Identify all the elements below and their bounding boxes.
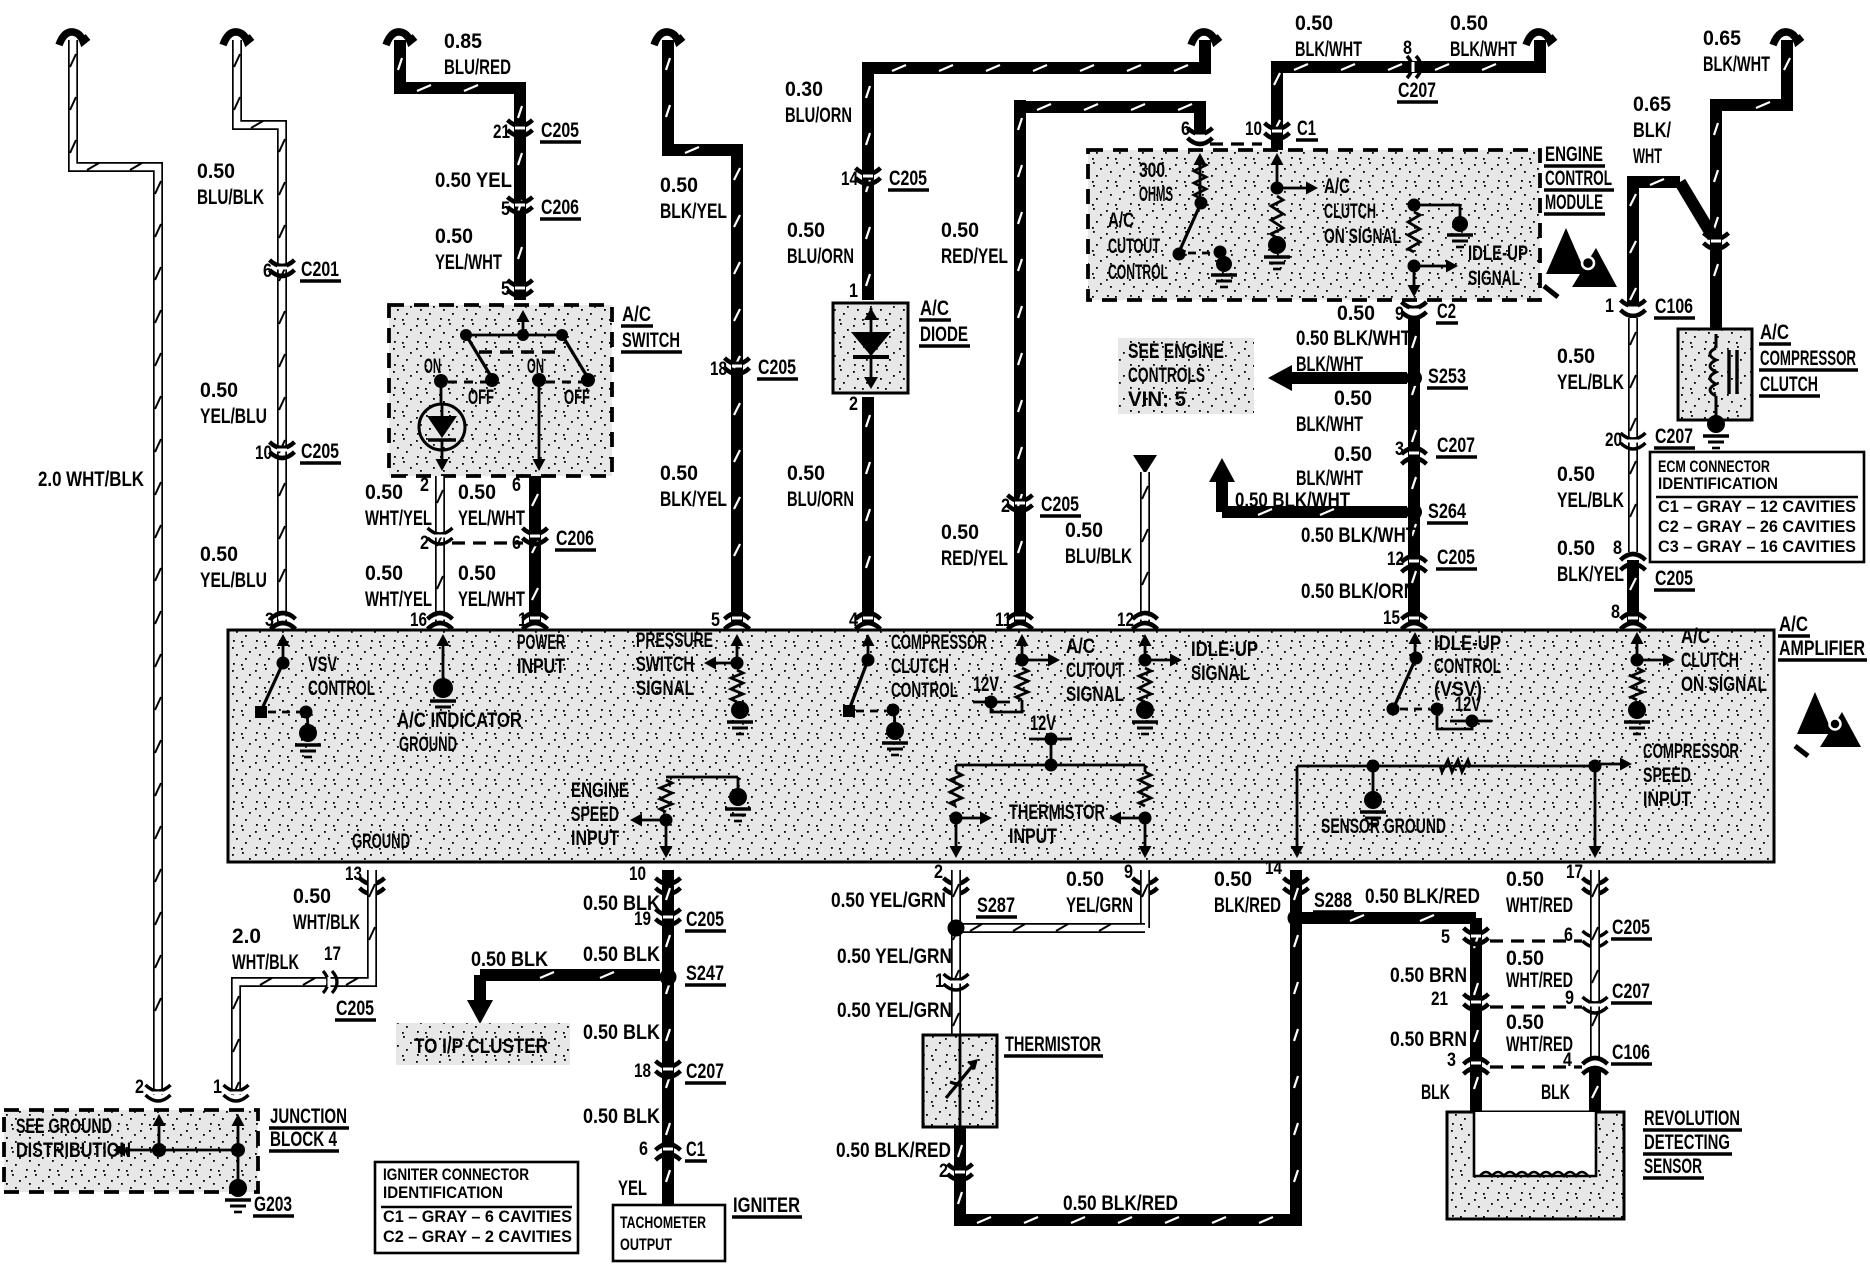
svg-text:0.65: 0.65 bbox=[1703, 27, 1741, 50]
svg-text:BLK/WHT: BLK/WHT bbox=[1296, 413, 1363, 436]
svg-text:GROUND: GROUND bbox=[352, 830, 410, 853]
svg-text:BLK/WHT: BLK/WHT bbox=[1450, 38, 1517, 61]
svg-text:BLK/WHT: BLK/WHT bbox=[1296, 467, 1363, 490]
svg-text:SWITCH: SWITCH bbox=[622, 329, 680, 352]
svg-text:0.50: 0.50 bbox=[293, 885, 331, 908]
svg-text:YEL/WHT: YEL/WHT bbox=[458, 588, 525, 611]
svg-text:0.50: 0.50 bbox=[365, 562, 403, 585]
svg-text:INPUT: INPUT bbox=[517, 655, 565, 678]
svg-text:0.50: 0.50 bbox=[941, 219, 979, 242]
svg-text:A/C: A/C bbox=[920, 297, 949, 320]
svg-text:REVOLUTION: REVOLUTION bbox=[1644, 1107, 1740, 1130]
svg-text:0.50 BLK/RED: 0.50 BLK/RED bbox=[1063, 1192, 1178, 1215]
svg-text:OFF: OFF bbox=[564, 386, 590, 409]
svg-text:0.50 BLK: 0.50 BLK bbox=[583, 1105, 660, 1128]
svg-text:OHMS: OHMS bbox=[1139, 183, 1173, 206]
svg-text:0.50 YEL/GRN: 0.50 YEL/GRN bbox=[837, 945, 952, 968]
svg-text:BLU/BLK: BLU/BLK bbox=[1065, 545, 1132, 568]
svg-text:YEL/BLU: YEL/BLU bbox=[200, 569, 267, 592]
svg-text:12V: 12V bbox=[1030, 712, 1056, 735]
svg-text:A/C: A/C bbox=[1779, 613, 1808, 636]
svg-text:MODULE: MODULE bbox=[1545, 191, 1603, 214]
svg-text:BLK: BLK bbox=[1421, 1081, 1450, 1104]
svg-text:2: 2 bbox=[135, 1077, 144, 1098]
svg-text:8: 8 bbox=[1613, 538, 1622, 559]
svg-text:BLK: BLK bbox=[1541, 1081, 1570, 1104]
svg-text:YEL/BLK: YEL/BLK bbox=[1557, 371, 1624, 394]
svg-text:6: 6 bbox=[639, 1139, 648, 1160]
svg-text:1: 1 bbox=[849, 281, 858, 302]
svg-text:YEL/GRN: YEL/GRN bbox=[1066, 894, 1133, 917]
svg-text:0.85: 0.85 bbox=[444, 30, 482, 53]
svg-text:AMPLIFIER: AMPLIFIER bbox=[1779, 637, 1865, 660]
svg-text:S253: S253 bbox=[1428, 365, 1466, 388]
svg-text:C201: C201 bbox=[301, 258, 339, 281]
svg-text:BLK/RED: BLK/RED bbox=[1214, 894, 1281, 917]
svg-text:DIODE: DIODE bbox=[920, 323, 968, 346]
svg-text:SIGNAL: SIGNAL bbox=[1066, 683, 1124, 706]
svg-text:IDENTIFICATION: IDENTIFICATION bbox=[1658, 474, 1778, 493]
svg-text:POWER: POWER bbox=[517, 631, 565, 654]
svg-text:IGNITER CONNECTOR: IGNITER CONNECTOR bbox=[383, 1165, 529, 1184]
svg-text:RED/YEL: RED/YEL bbox=[941, 547, 1008, 570]
svg-text:GROUND: GROUND bbox=[399, 733, 457, 756]
svg-text:S247: S247 bbox=[686, 962, 724, 985]
svg-text:A/C: A/C bbox=[622, 303, 651, 326]
svg-text:C2 – GRAY – 2 CAVITIES: C2 – GRAY – 2 CAVITIES bbox=[383, 1227, 572, 1246]
svg-text:0.50 BLK: 0.50 BLK bbox=[471, 948, 548, 971]
svg-text:0.30: 0.30 bbox=[785, 78, 823, 101]
svg-text:SENSOR GROUND: SENSOR GROUND bbox=[1321, 815, 1446, 838]
svg-text:10: 10 bbox=[629, 864, 646, 885]
svg-text:1: 1 bbox=[213, 1077, 222, 1098]
svg-text:C206: C206 bbox=[556, 527, 594, 550]
svg-text:0.50: 0.50 bbox=[941, 521, 979, 544]
svg-text:2: 2 bbox=[420, 533, 429, 554]
svg-text:CLUTCH: CLUTCH bbox=[1324, 200, 1376, 223]
svg-text:BLU/ORN: BLU/ORN bbox=[785, 104, 852, 127]
svg-text:6: 6 bbox=[512, 475, 521, 496]
svg-text:JUNCTION: JUNCTION bbox=[270, 1105, 347, 1128]
svg-text:0.50 YEL: 0.50 YEL bbox=[435, 169, 512, 192]
svg-text:CONTROL: CONTROL bbox=[308, 677, 375, 700]
svg-text:10: 10 bbox=[1245, 119, 1262, 140]
svg-text:0.50: 0.50 bbox=[435, 225, 473, 248]
svg-text:0.50: 0.50 bbox=[1337, 302, 1375, 325]
svg-text:WHT/RED: WHT/RED bbox=[1506, 894, 1573, 917]
svg-text:0.50: 0.50 bbox=[200, 379, 238, 402]
svg-text:IDLE-UP: IDLE-UP bbox=[1191, 638, 1258, 661]
svg-text:THERMISTOR: THERMISTOR bbox=[1009, 801, 1105, 824]
svg-text:0.50 YEL/GRN: 0.50 YEL/GRN bbox=[837, 999, 952, 1022]
svg-text:C205: C205 bbox=[889, 167, 927, 190]
svg-text:PRESSURE: PRESSURE bbox=[636, 629, 713, 652]
svg-text:17: 17 bbox=[324, 944, 341, 965]
svg-text:INPUT: INPUT bbox=[1009, 825, 1057, 848]
svg-text:20: 20 bbox=[1605, 430, 1622, 451]
svg-text:2: 2 bbox=[849, 394, 858, 415]
svg-text:A/C: A/C bbox=[1324, 175, 1350, 198]
svg-text:C1: C1 bbox=[1297, 117, 1316, 140]
svg-text:0.50 BLK: 0.50 BLK bbox=[583, 943, 660, 966]
svg-text:OFF: OFF bbox=[468, 386, 494, 409]
svg-text:C207: C207 bbox=[1437, 434, 1475, 457]
svg-text:0.50 BLK/WHT: 0.50 BLK/WHT bbox=[1296, 327, 1411, 350]
svg-text:S264: S264 bbox=[1428, 500, 1466, 523]
svg-text:0.50: 0.50 bbox=[1506, 947, 1544, 970]
svg-text:C205: C205 bbox=[1437, 546, 1475, 569]
svg-text:BLU/RED: BLU/RED bbox=[444, 56, 511, 79]
svg-text:C205: C205 bbox=[301, 440, 339, 463]
svg-text:SIGNAL: SIGNAL bbox=[636, 677, 694, 700]
svg-text:C1 – GRAY – 12 CAVITIES: C1 – GRAY – 12 CAVITIES bbox=[1658, 497, 1856, 516]
svg-text:0.50: 0.50 bbox=[1065, 519, 1103, 542]
svg-text:CLUTCH: CLUTCH bbox=[891, 655, 949, 678]
svg-text:C205: C205 bbox=[336, 997, 374, 1020]
svg-text:A/C: A/C bbox=[1108, 209, 1134, 232]
svg-text:INPUT: INPUT bbox=[1643, 788, 1691, 811]
svg-text:0.50 BRN: 0.50 BRN bbox=[1390, 964, 1467, 987]
svg-text:9: 9 bbox=[1124, 862, 1133, 883]
svg-text:0.50: 0.50 bbox=[200, 543, 238, 566]
svg-text:2: 2 bbox=[420, 475, 429, 496]
svg-text:YEL: YEL bbox=[618, 1177, 647, 1200]
svg-text:0.50: 0.50 bbox=[1557, 345, 1595, 368]
svg-text:COMPRESSOR: COMPRESSOR bbox=[891, 631, 987, 654]
svg-text:BLU/ORN: BLU/ORN bbox=[787, 488, 854, 511]
svg-text:0.50 BRN: 0.50 BRN bbox=[1390, 1028, 1467, 1051]
svg-text:C205: C205 bbox=[686, 908, 724, 931]
svg-text:C205: C205 bbox=[1041, 493, 1079, 516]
svg-text:2.0 WHT/BLK: 2.0 WHT/BLK bbox=[38, 468, 144, 491]
svg-text:SEE GROUND: SEE GROUND bbox=[16, 1115, 112, 1138]
svg-text:BLK/: BLK/ bbox=[1633, 119, 1671, 142]
svg-text:15: 15 bbox=[1383, 608, 1400, 629]
svg-text:CONTROL: CONTROL bbox=[891, 679, 958, 702]
svg-text:C207: C207 bbox=[686, 1060, 724, 1083]
svg-text:ON SIGNAL: ON SIGNAL bbox=[1681, 673, 1767, 696]
svg-text:0.50: 0.50 bbox=[458, 562, 496, 585]
svg-text:0.50: 0.50 bbox=[660, 462, 698, 485]
svg-text:DETECTING: DETECTING bbox=[1644, 1131, 1730, 1154]
svg-text:1: 1 bbox=[935, 971, 944, 992]
svg-text:0.50 BLK/WHT: 0.50 BLK/WHT bbox=[1235, 489, 1350, 512]
svg-text:CONTROL: CONTROL bbox=[1108, 261, 1168, 284]
svg-text:SENSOR: SENSOR bbox=[1644, 1155, 1702, 1178]
svg-text:0.50: 0.50 bbox=[787, 219, 825, 242]
svg-text:WHT/BLK: WHT/BLK bbox=[293, 911, 360, 934]
svg-text:SIGNAL: SIGNAL bbox=[1468, 267, 1520, 290]
svg-text:SWITCH: SWITCH bbox=[636, 653, 694, 676]
svg-text:A/C: A/C bbox=[1681, 625, 1710, 648]
svg-text:8: 8 bbox=[1611, 602, 1620, 623]
svg-text:YEL/WHT: YEL/WHT bbox=[458, 507, 525, 530]
svg-text:A/C INDICATOR: A/C INDICATOR bbox=[397, 709, 522, 732]
svg-text:BLU/ORN: BLU/ORN bbox=[787, 245, 854, 268]
svg-text:0.50: 0.50 bbox=[197, 160, 235, 183]
svg-text:2.0: 2.0 bbox=[232, 925, 261, 948]
svg-text:19: 19 bbox=[634, 909, 651, 930]
svg-text:S287: S287 bbox=[977, 894, 1015, 917]
svg-text:BLK/YEL: BLK/YEL bbox=[660, 200, 727, 223]
svg-text:0.50 BLK: 0.50 BLK bbox=[583, 1021, 660, 1044]
svg-text:0.50 YEL/GRN: 0.50 YEL/GRN bbox=[831, 889, 946, 912]
svg-text:0.50: 0.50 bbox=[787, 462, 825, 485]
svg-text:21: 21 bbox=[1431, 989, 1448, 1010]
svg-text:0.50 BLK/RED: 0.50 BLK/RED bbox=[1365, 885, 1480, 908]
svg-text:CLUTCH: CLUTCH bbox=[1681, 649, 1739, 672]
svg-text:0.50: 0.50 bbox=[1066, 868, 1104, 891]
svg-text:1: 1 bbox=[1605, 296, 1614, 317]
svg-text:IGNITER: IGNITER bbox=[733, 1194, 800, 1217]
svg-text:WHT/YEL: WHT/YEL bbox=[365, 588, 432, 611]
svg-text:5: 5 bbox=[1441, 927, 1450, 948]
svg-text:TO I/P CLUSTER: TO I/P CLUSTER bbox=[414, 1035, 548, 1058]
svg-text:WHT/RED: WHT/RED bbox=[1506, 969, 1573, 992]
svg-text:C207: C207 bbox=[1612, 980, 1650, 1003]
svg-text:CLUTCH: CLUTCH bbox=[1760, 373, 1818, 396]
svg-text:C205: C205 bbox=[1612, 916, 1650, 939]
svg-text:12V: 12V bbox=[1455, 693, 1481, 716]
svg-text:C1: C1 bbox=[686, 1138, 705, 1161]
svg-text:0.50: 0.50 bbox=[1506, 1011, 1544, 1034]
svg-text:BLK/YEL: BLK/YEL bbox=[1557, 563, 1624, 586]
svg-text:BLK/WHT: BLK/WHT bbox=[1295, 38, 1362, 61]
svg-text:CUTOUT: CUTOUT bbox=[1108, 235, 1160, 258]
svg-text:VSV: VSV bbox=[308, 653, 337, 676]
svg-text:6: 6 bbox=[1564, 925, 1573, 946]
svg-text:C2 – GRAY – 26 CAVITIES: C2 – GRAY – 26 CAVITIES bbox=[1658, 517, 1856, 536]
svg-text:TACHOMETER: TACHOMETER bbox=[620, 1213, 706, 1232]
svg-text:C2: C2 bbox=[1437, 300, 1456, 323]
svg-text:VIN: 5: VIN: 5 bbox=[1128, 388, 1186, 411]
svg-text:CUTOUT: CUTOUT bbox=[1066, 659, 1124, 682]
svg-text:3: 3 bbox=[1395, 439, 1404, 460]
svg-text:0.50: 0.50 bbox=[1214, 868, 1252, 891]
svg-text:SIGNAL: SIGNAL bbox=[1191, 662, 1249, 685]
svg-text:0.50: 0.50 bbox=[1334, 387, 1372, 410]
svg-text:G203: G203 bbox=[254, 1193, 292, 1216]
svg-text:13: 13 bbox=[345, 864, 362, 885]
svg-text:WHT/YEL: WHT/YEL bbox=[365, 507, 432, 530]
svg-text:CONTROL: CONTROL bbox=[1434, 655, 1501, 678]
svg-text:BLOCK 4: BLOCK 4 bbox=[270, 1128, 337, 1151]
svg-text:IDLE-UP: IDLE-UP bbox=[1468, 242, 1528, 265]
svg-text:0.50: 0.50 bbox=[1295, 12, 1333, 35]
svg-text:IDENTIFICATION: IDENTIFICATION bbox=[383, 1183, 503, 1202]
svg-text:BLK/YEL: BLK/YEL bbox=[660, 488, 727, 511]
svg-text:C106: C106 bbox=[1655, 295, 1693, 318]
svg-text:0.50 BLK/WHT: 0.50 BLK/WHT bbox=[1301, 524, 1416, 547]
svg-text:WHT/BLK: WHT/BLK bbox=[232, 951, 299, 974]
svg-text:C205: C205 bbox=[758, 356, 796, 379]
svg-text:300: 300 bbox=[1139, 159, 1165, 182]
svg-text:0.50: 0.50 bbox=[365, 481, 403, 504]
svg-text:YEL/WHT: YEL/WHT bbox=[435, 251, 502, 274]
svg-text:9: 9 bbox=[1565, 988, 1574, 1009]
svg-text:OUTPUT: OUTPUT bbox=[620, 1235, 672, 1254]
svg-text:A/C: A/C bbox=[1760, 321, 1789, 344]
svg-text:RED/YEL: RED/YEL bbox=[941, 245, 1008, 268]
svg-text:0.50: 0.50 bbox=[1334, 443, 1372, 466]
svg-text:INPUT: INPUT bbox=[571, 827, 619, 850]
svg-text:A/C: A/C bbox=[1066, 635, 1095, 658]
svg-text:0.50: 0.50 bbox=[1450, 12, 1488, 35]
svg-text:0.65: 0.65 bbox=[1633, 93, 1671, 116]
svg-text:0.50 BLK/ORN: 0.50 BLK/ORN bbox=[1301, 580, 1416, 603]
svg-text:COMPRESSOR: COMPRESSOR bbox=[1760, 347, 1856, 370]
svg-text:SEE ENGINE: SEE ENGINE bbox=[1128, 340, 1224, 363]
svg-text:C205: C205 bbox=[541, 119, 579, 142]
svg-text:COMPRESSOR: COMPRESSOR bbox=[1643, 740, 1739, 763]
svg-text:0.50: 0.50 bbox=[1557, 463, 1595, 486]
svg-text:ENGINE: ENGINE bbox=[1545, 143, 1603, 166]
svg-text:C207: C207 bbox=[1655, 425, 1693, 448]
svg-text:2: 2 bbox=[939, 1161, 948, 1182]
svg-text:2: 2 bbox=[934, 862, 943, 883]
svg-text:18: 18 bbox=[634, 1061, 651, 1082]
svg-text:CONTROL: CONTROL bbox=[1545, 167, 1612, 190]
svg-text:17: 17 bbox=[1566, 862, 1583, 883]
svg-text:WHT: WHT bbox=[1633, 145, 1662, 168]
svg-text:14: 14 bbox=[1265, 858, 1282, 879]
svg-text:BLU/BLK: BLU/BLK bbox=[197, 186, 264, 209]
svg-text:0.50: 0.50 bbox=[458, 481, 496, 504]
svg-text:CONTROLS: CONTROLS bbox=[1128, 364, 1205, 387]
svg-text:THERMISTOR: THERMISTOR bbox=[1005, 1033, 1101, 1056]
svg-text:SPEED: SPEED bbox=[1643, 764, 1691, 787]
svg-text:DISTRIBUTION: DISTRIBUTION bbox=[16, 1139, 131, 1162]
svg-text:SPEED: SPEED bbox=[571, 803, 619, 826]
svg-text:0.50: 0.50 bbox=[660, 174, 698, 197]
svg-text:C3 – GRAY – 16 CAVITIES: C3 – GRAY – 16 CAVITIES bbox=[1658, 537, 1856, 556]
svg-text:C205: C205 bbox=[1655, 567, 1693, 590]
svg-text:ENGINE: ENGINE bbox=[571, 779, 629, 802]
svg-text:C207: C207 bbox=[1398, 79, 1436, 102]
svg-text:4: 4 bbox=[1563, 1050, 1572, 1071]
svg-text:IDLE-UP: IDLE-UP bbox=[1434, 632, 1501, 655]
svg-text:3: 3 bbox=[1447, 1050, 1456, 1071]
svg-text:C1 – GRAY – 6 CAVITIES: C1 – GRAY – 6 CAVITIES bbox=[383, 1207, 572, 1226]
svg-text:12V: 12V bbox=[973, 673, 999, 696]
svg-text:0.50: 0.50 bbox=[1506, 868, 1544, 891]
svg-text:5: 5 bbox=[711, 610, 720, 631]
svg-text:YEL/BLU: YEL/BLU bbox=[200, 405, 267, 428]
svg-text:ON SIGNAL: ON SIGNAL bbox=[1324, 225, 1401, 248]
svg-text:16: 16 bbox=[410, 610, 427, 631]
svg-text:S288: S288 bbox=[1314, 889, 1352, 912]
svg-text:C106: C106 bbox=[1612, 1041, 1650, 1064]
svg-text:YEL/BLK: YEL/BLK bbox=[1557, 489, 1624, 512]
svg-text:0.50: 0.50 bbox=[1557, 537, 1595, 560]
svg-text:BLK/WHT: BLK/WHT bbox=[1703, 53, 1770, 76]
svg-text:C206: C206 bbox=[541, 196, 579, 219]
svg-text:0.50 BLK/RED: 0.50 BLK/RED bbox=[836, 1139, 951, 1162]
